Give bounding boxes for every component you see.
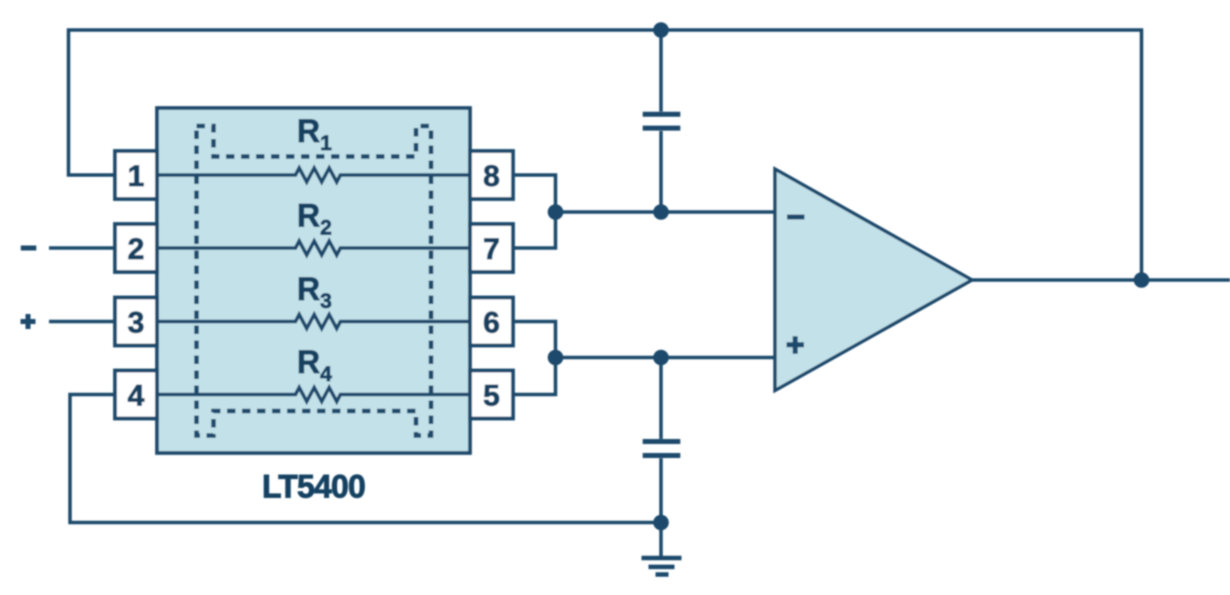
svg-text:4: 4 [128,379,145,412]
svg-text:6: 6 [483,306,500,339]
svg-text:3: 3 [128,306,145,339]
svg-text:2: 2 [128,233,145,266]
svg-text:5: 5 [483,379,500,412]
svg-text:1: 1 [128,160,145,193]
svg-text:7: 7 [483,233,500,266]
svg-text:8: 8 [483,160,500,193]
svg-text:LT5400: LT5400 [262,469,365,505]
